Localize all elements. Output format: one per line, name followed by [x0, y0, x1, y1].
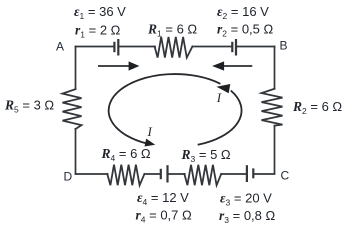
wire resistor R2 to corner C [274, 126, 276, 174]
wire right side B down to resistor R2 [274, 47, 276, 89]
wire left side A down to resistor R5 [75, 47, 77, 90]
svg-text:ε3 = 20 V: ε3 = 20 V [220, 191, 272, 208]
wire battery E1 to resistor R1 [119, 46, 155, 48]
wire bottom D to resistor R4 [76, 173, 108, 175]
svg-text:R5 = 3 Ω: R5 = 3 Ω [4, 98, 54, 115]
svg-text:R3 = 5 Ω: R3 = 5 Ω [181, 147, 231, 164]
svg-text:r1 = 2 Ω: r1 = 2 Ω [75, 23, 121, 40]
svg-text:r2 = 0,5 Ω: r2 = 0,5 Ω [217, 22, 273, 39]
resistor R2 [262, 89, 283, 126]
svg-text:C: C [281, 169, 290, 183]
wire battery E3 to corner C [254, 173, 274, 175]
battery cell E4 [161, 166, 168, 181]
svg-text:ε4 = 12 V: ε4 = 12 V [137, 190, 189, 207]
current loop arc 1 (top and left, ends lower-left with arrowhead) [109, 74, 221, 146]
wire resistor R4 to battery E4 [144, 173, 159, 175]
svg-text:I: I [216, 90, 222, 105]
wire resistor R3 to battery E3 [221, 173, 246, 175]
wire battery E4 to resistor R3 [169, 173, 185, 175]
svg-text:B: B [280, 39, 288, 53]
battery cell E2 [232, 40, 236, 54]
current arrow top-right (pointing left) [212, 61, 252, 70]
svg-text:R2 = 6 Ω: R2 = 6 Ω [292, 99, 342, 116]
wire resistor R5 to corner D [75, 129, 77, 174]
current arrow top-left (pointing right) [98, 61, 139, 70]
svg-text:ε2 = 16 V: ε2 = 16 V [217, 4, 269, 21]
svg-text:R1 = 6 Ω: R1 = 6 Ω [147, 22, 197, 39]
svg-text:I: I [147, 124, 153, 139]
svg-text:r3 = 0,8 Ω: r3 = 0,8 Ω [219, 208, 275, 225]
battery cell E1 [114, 40, 118, 54]
resistor R1 [155, 37, 193, 58]
resistor R5 [63, 89, 82, 129]
battery cell E3 [247, 166, 253, 181]
resistor R4 [107, 165, 144, 186]
wire battery E2 to corner B [237, 46, 275, 48]
current loop arc 2 (right side, ends upper-right with arrowhead) [198, 84, 242, 145]
svg-text:R4 = 6 Ω: R4 = 6 Ω [101, 146, 151, 163]
resistor R3 [184, 165, 221, 185]
svg-text:A: A [56, 40, 64, 54]
wire top A to battery E1 [76, 46, 114, 48]
svg-text:D: D [64, 170, 73, 184]
svg-text:ε1 = 36 V: ε1 = 36 V [74, 4, 126, 21]
wire resistor R1 to battery E2 [192, 46, 231, 48]
svg-text:r4 = 0,7 Ω: r4 = 0,7 Ω [136, 208, 192, 225]
